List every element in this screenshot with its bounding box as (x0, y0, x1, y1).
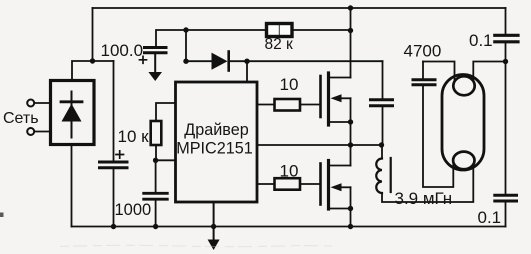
resistor R4 10 lower gate (275, 178, 301, 190)
wire R4 to gate Q2 (300, 183, 321, 185)
wire lamp upper right pin to cap divider (473, 62, 505, 87)
node VCC at diode row (183, 59, 188, 64)
svg-text:100.0: 100.0 (101, 41, 144, 60)
svg-text:0.1: 0.1 (469, 31, 493, 50)
svg-text:10: 10 (280, 162, 299, 181)
ground arrow of C2 (154, 55, 156, 73)
wire C5 bottom to lamp lower left pin (423, 86, 453, 187)
resistor R2 10k timing (156, 103, 176, 121)
svg-text:82 к: 82 к (265, 36, 294, 53)
wire COM pin to ground (213, 202, 215, 241)
wire bus cap riser (113, 61, 115, 160)
wire LO pin (257, 183, 275, 185)
node VS at Q1 source (348, 142, 353, 147)
diode VD2 bootstrap (212, 53, 228, 70)
node cap divider / lamp (503, 59, 508, 64)
node VCC top (183, 27, 188, 32)
node 82k / drain line (348, 28, 353, 33)
svg-text:10: 10 (280, 75, 299, 94)
node VB pin junction (244, 59, 249, 64)
bridge rectifier VD1 (51, 81, 95, 145)
resistor R3 10 upper gate (275, 99, 301, 111)
plus mark of C1 (116, 151, 124, 158)
node Q2 source lead (348, 206, 353, 211)
wire R3 to gate Q1 (300, 104, 321, 106)
node top rail / drain line (348, 5, 353, 10)
capacitor C1 bus electrolytic (100, 162, 128, 168)
terminal lower (27, 128, 34, 135)
transistor Q2 lower MOSFET (321, 145, 351, 227)
wire top rail (93, 7, 506, 9)
scan smudge bottom (60, 245, 332, 246)
node bridge plus / top rail junction (90, 58, 95, 63)
resistor R1 82k (267, 24, 293, 37)
wire CT to driver (156, 159, 176, 161)
capacitor C7 0.1 bottom (495, 195, 517, 201)
capacitor C5 4700 (422, 62, 424, 79)
capacitor C3 1000 timing (144, 193, 168, 199)
wire bridge minus to bottom rail (71, 145, 73, 227)
node VS at bootstrap cap (379, 142, 384, 147)
wire left riser from top rail to bridge plus (92, 8, 94, 61)
wire VS row (257, 145, 382, 159)
wire terminal lower to bridge (34, 131, 50, 133)
svg-text:MPIC2151: MPIC2151 (176, 140, 252, 158)
node CT (153, 158, 158, 163)
terminal upper (27, 100, 34, 107)
svg-text:1000: 1000 (115, 201, 152, 219)
svg-text:3.9 мГн: 3.9 мГн (395, 189, 453, 208)
wire VCC to 82k (186, 29, 267, 31)
wire CT to 1000 cap (155, 160, 157, 192)
svg-text:4700: 4700 (404, 42, 442, 61)
wire VB row (229, 60, 383, 62)
wire C5 top to lamp upper left pin (423, 62, 455, 87)
lamp EL1 fluorescent tube (442, 75, 484, 171)
wire right rail middle (505, 62, 507, 194)
scan mark left edge (0, 213, 4, 218)
core line of L1 (390, 158, 392, 192)
wire VCC vertical (185, 30, 187, 61)
wire VB pin into driver (246, 61, 248, 82)
node Q1 source lead (348, 119, 353, 124)
plus mark of C2 (140, 56, 147, 63)
node C1 / bottom rail (111, 224, 116, 229)
wire L1 to lamp lower right pin (382, 160, 473, 202)
wire bottom rail (72, 226, 506, 228)
inductor L1 3.9 mH (376, 159, 382, 194)
lamp top filament (453, 76, 474, 95)
wire HO pin (257, 104, 275, 106)
capacitor C2 100.0 VCC filter (156, 30, 186, 46)
transistor Q1 upper MOSFET (321, 8, 351, 145)
wire VCC to diode anode (186, 60, 212, 62)
node COM / bottom rail (211, 224, 216, 229)
svg-text:0.1: 0.1 (478, 208, 502, 227)
lamp bottom filament (453, 152, 474, 170)
wire 82k to drain line (292, 29, 351, 31)
svg-text:Драйвер: Драйвер (184, 121, 248, 139)
wire C1 to bottom rail (113, 170, 115, 227)
svg-text:Сеть: Сеть (3, 110, 39, 127)
driver box U1 MPIC2151 (176, 82, 258, 202)
wire bridge plus output (72, 61, 114, 81)
capacitor C4 bootstrap (382, 61, 384, 98)
capacitor C6 0.1 top (505, 8, 507, 34)
ground arrow main (208, 240, 220, 251)
node C3 / bottom rail (153, 224, 158, 229)
svg-text:10 к: 10 к (118, 127, 150, 146)
wire terminal upper to bridge (34, 102, 50, 104)
node Q2 source / bottom rail (348, 224, 353, 229)
